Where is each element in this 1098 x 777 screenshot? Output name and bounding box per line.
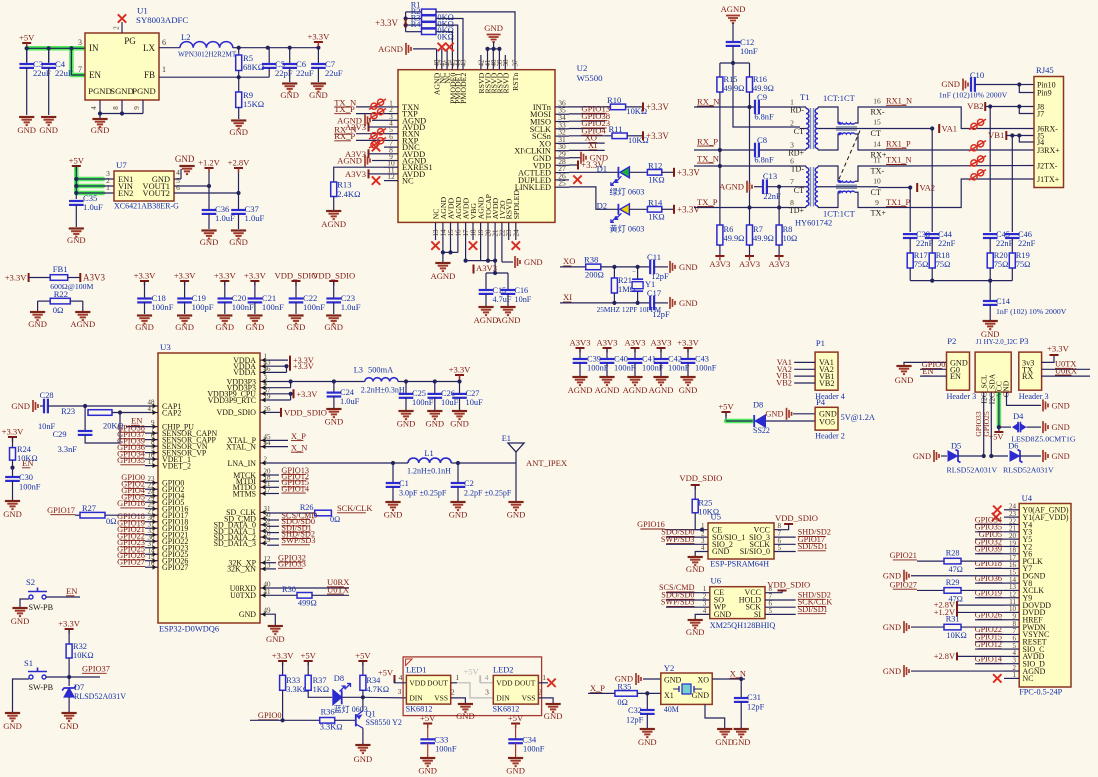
svg-text:C25: C25 [412,389,426,398]
svg-text:GND: GND [638,737,657,747]
ground below C39 [572,376,587,378]
svg-text:1CT:1CT: 1CT:1CT [823,210,855,219]
net label X_P [267,439,288,441]
svg-text:C29: C29 [53,430,67,439]
resistor R15 49.9ohm [717,77,723,92]
svg-text:ANT_IPEX: ANT_IPEX [526,458,568,468]
wire U5 GND pin4 to ground [695,552,708,557]
power flag VDD_SDIO above C23 [329,280,338,282]
svg-text:LED1: LED1 [406,665,426,674]
svg-text:D8: D8 [334,674,344,683]
svg-text:GND: GND [765,410,783,419]
svg-text:2: 2 [790,119,794,128]
wire VB1 down to C46 [1011,136,1013,233]
pin 18 MTDI of U3 [260,480,267,482]
pin 48 AGND of U2 top [436,55,438,70]
ground right of C11 [669,261,671,273]
wire VOUT2 +2.8V [174,192,239,194]
svg-text:RX1_P: RX1_P [886,140,911,149]
svg-text:1KΩ: 1KΩ [648,175,664,184]
wire U6 GND pin4 to ground [695,614,710,619]
svg-text:4.7uF: 4.7uF [493,295,512,304]
power flag +5V above C33 [423,723,432,725]
differential pair mark at J3 [969,141,986,152]
pin 14 GPIO25 of U3 [151,553,158,555]
svg-text:C31: C31 [747,693,761,702]
pin 41 U0TXD of U3 [260,594,267,596]
net flag VA2 [908,185,912,189]
capacitor C37 1.0uF [238,193,240,210]
zener diode D6 RLSD52A031V [991,455,1008,457]
net label U0RX wire [267,587,349,589]
capacitor C32 12pF [646,693,648,710]
svg-text:T1: T1 [800,92,810,102]
LED D2 yellow on LINKLED [617,204,619,215]
svg-text:SGND: SGND [110,86,133,96]
capacitor C21 100nF [254,281,256,299]
svg-text:1.0uF: 1.0uF [341,302,361,312]
ground below C22 [288,314,303,316]
ground below C6 [282,82,297,84]
svg-text:EN: EN [66,586,78,596]
svg-text:GND: GND [507,510,526,520]
ground below C37 [231,229,246,231]
svg-text:12pF: 12pF [626,716,644,725]
resistor R24 10KOhm EN pullup [12,437,14,448]
pin 29 GPIO5 of U3 [151,501,158,503]
svg-text:EN: EN [89,70,101,80]
differential pair mark RX [369,129,386,140]
svg-text:GND: GND [484,23,503,33]
svg-text:R30: R30 [282,585,296,594]
svg-text:6.8nF: 6.8nF [754,113,774,122]
svg-text:TX_N: TX_N [697,153,720,163]
svg-text:J1 HY-2.0_I2C: J1 HY-2.0_I2C [976,339,1018,346]
svg-text:TX+: TX+ [871,209,887,218]
svg-text:R17: R17 [914,251,928,260]
pin 18 VBG of U2 bottom [472,222,474,240]
svg-text:GND: GND [679,262,698,272]
svg-text:GPIO27: GPIO27 [117,558,145,567]
power flag +3.3V above C43 [684,347,693,349]
svg-text:10nF: 10nF [740,46,758,56]
svg-text:RX_P: RX_P [697,136,718,146]
choke core lines [836,126,857,128]
pin 32 SCSn of U2 [555,135,569,137]
capacitor C11 12pF [649,260,651,275]
resistor R26 0ohm [315,510,332,516]
svg-text:D7: D7 [74,683,84,692]
pin 31 SD_CLK of U3 [260,511,267,513]
antenna E1 ANT_IPEX [515,452,517,463]
capacitor C23 1.0uF [333,281,335,299]
svg-text:DOUT: DOUT [515,679,536,688]
wire R3 to PMODE1 pin 44 [436,25,458,55]
svg-text:+3.3V: +3.3V [677,167,700,177]
net label GPIO17 at U5 [774,543,796,545]
svg-text:100nF: 100nF [303,302,325,312]
wire S1 to R32 node and GPIO37 [46,676,100,678]
wire FB node [159,76,269,78]
pin 37 VDD3P9_CPU of U3 [260,393,267,395]
capacitor C42 100nF [660,348,662,359]
svg-text:7: 7 [78,65,82,74]
resistor R1 10KOhm [406,11,422,13]
ground below antenna E1 [515,463,517,501]
ground below C4 [41,116,56,118]
svg-text:+3.3V: +3.3V [677,338,700,348]
wire termination common bus [910,280,1012,282]
svg-text:A3V3: A3V3 [596,338,617,348]
svg-text:LNA_IN: LNA_IN [228,459,257,468]
pin 19 VDD3P9_RTC of U3 [260,399,267,401]
svg-text:U2: U2 [577,63,588,73]
svg-text:1: 1 [1013,671,1017,679]
wire C10 to Pin10 and Pin9 [1017,82,1021,86]
svg-text:C34: C34 [522,735,537,744]
capacitor C14 1nF 2000V [983,300,998,302]
bottom pins PGND SGND PGND of U1 [99,100,101,114]
wire CT2 from C12 node [733,63,800,127]
svg-text:GND: GND [239,610,256,619]
svg-text:VA2: VA2 [920,183,936,193]
svg-text:VDD_SDIO: VDD_SDIO [775,513,818,523]
wire PGND bus [100,113,143,115]
pin 26 VDD_SDIO of U3 [260,411,267,413]
pin 40 RSVD of U2 top [492,55,494,70]
svg-text:NC: NC [402,177,414,186]
svg-text:10uF: 10uF [441,398,459,407]
capacitor C33 100nF [427,724,429,740]
svg-text:RX_P: RX_P [334,131,355,141]
ground below U3 [268,625,283,627]
ground below Q1 [355,744,370,746]
svg-text:GPIO35: GPIO35 [117,456,145,465]
wire RX- route to J6 [878,107,1034,129]
svg-text:R27: R27 [82,504,96,513]
resistor R11 10KOhm pull-up on SCSn [605,135,612,137]
resistor R18 75ohm [929,253,935,268]
capacitor C44 22nF [925,233,940,235]
wire VDD3P9 CPU RTC to +3.3V [267,393,291,395]
svg-text:VDDA: VDDA [233,368,256,377]
svg-text:75Ω: 75Ω [994,260,1009,269]
capacitor C7 22uF [317,48,319,64]
svg-text:U5: U5 [711,512,722,522]
pin 27 GPIO17 of U3 [151,514,158,516]
pin 2 TXP of U2 [384,113,398,115]
svg-text:J1TX+: J1TX+ [1037,175,1060,184]
capacitor C25 100nF [405,382,407,394]
svg-text:49.9Ω: 49.9Ω [724,84,745,93]
svg-text:VOUT2: VOUT2 [143,189,170,198]
wire secondary to choke [818,107,838,123]
resistor R22 0ohm GND-AGND tie [38,300,51,302]
common mode choke winding lower [838,191,855,192]
net flag A3V3 at pin 21 [494,261,496,273]
connector RJ45 body [1034,77,1064,188]
wire LED1 VSS to ground [451,698,466,703]
svg-text:PMODE2: PMODE2 [459,73,468,104]
svg-text:RLSD52A031V: RLSD52A031V [1003,466,1054,475]
pin 8 AVDD of U2 [384,153,398,155]
ferrite bead FB1 600ohm@100M [29,277,51,279]
pin 23 Y1(AF_VDD) of U4 [1004,516,1019,518]
svg-text:GND: GND [679,298,698,308]
svg-text:GND: GND [229,237,248,247]
svg-text:100nF: 100nF [152,302,174,312]
regulator U7 XC6421AB38ER-G body [114,171,174,201]
svg-text:R12: R12 [648,160,662,170]
ground right of C17 [669,297,671,309]
svg-text:C40: C40 [614,355,628,364]
wire SD_CLK to R26 [267,512,315,514]
svg-text:1nF (102) 10% 2000V: 1nF (102) 10% 2000V [996,307,1067,316]
svg-text:3: 3 [790,141,794,150]
svg-text:WPN3012H2R2MT: WPN3012H2R2MT [178,51,237,59]
svg-text:GND: GND [544,711,563,721]
svg-text:GPIO12: GPIO12 [975,640,1002,649]
svg-text:U0TX: U0TX [327,584,350,594]
svg-text:100pF: 100pF [192,302,214,312]
wire S2 to EN label [46,596,80,598]
svg-text:GND: GND [135,322,154,332]
ground reference right of D4 [1042,421,1044,433]
pin 42 RSVD of U2 top [480,55,482,70]
resistor R27 0ohm [80,512,105,518]
capacitor C31 12pF [740,679,742,698]
pin 3 AGND of U2 [384,119,398,121]
pin 17 MTMS of U3 [260,493,267,495]
power flag +5V below VCC [998,427,1000,432]
svg-text:22nF: 22nF [996,239,1014,248]
resistor R19 75ohm [1009,253,1015,268]
power flag A3V3 above C41 [631,347,640,349]
svg-text:C10: C10 [970,70,984,80]
power flag +3.3V after R10 [642,102,644,111]
pin 12 NC of U2 [384,180,398,182]
svg-text:3.0pF ±0.25pF: 3.0pF ±0.25pF [399,489,447,498]
net label XO pin31 [569,142,605,144]
power flag +3.3V above C21 [250,280,259,282]
svg-text:GND: GND [715,737,734,747]
svg-text:10KΩ: 10KΩ [73,651,94,660]
svg-text:R38: R38 [584,255,598,265]
pin 47 CAP2 of U3 [151,412,158,414]
resistor R31 10KOhm [944,624,961,630]
pin 15 GPIO26 of U3 [151,560,158,562]
svg-text:X_N: X_N [730,670,746,679]
pin 14 Y8 of U4 [1004,582,1019,584]
pin 38 RSVD of U2 top [504,55,506,70]
pin 37 GPIO23 of U3 [151,547,158,549]
svg-text:SDI/SD1: SDI/SD1 [798,542,828,551]
ground below D7 [62,712,77,714]
wire INTn pin36 to R10 [569,106,610,108]
no-connect at LED2 DOUT [538,682,548,684]
pin 9 CHIP_PU of U3 [151,426,158,428]
wire +5V to U7 highlight [76,167,103,193]
ground below C24 [326,408,341,410]
ground below C41 [627,376,642,378]
svg-text:29: 29 [264,536,272,544]
svg-text:75Ω: 75Ω [936,260,951,269]
svg-text:Pin9: Pin9 [1037,88,1052,97]
ground below C19 [177,314,192,316]
svg-text:VDD_SDIO: VDD_SDIO [217,408,257,417]
svg-text:J7: J7 [1037,109,1044,118]
capacitor C8 6.8nF [754,143,756,158]
svg-text:2: 2 [264,456,268,464]
wire I2C_SCL column [983,392,985,456]
svg-text:TD+: TD+ [789,206,805,215]
svg-text:CAP2: CAP2 [162,408,181,417]
power flag +5V [22,42,31,44]
pin 24 GPIO4 of U3 [151,495,158,497]
wire CAP1 node to R23 [84,406,86,413]
capacitor C39 100nF [579,348,581,359]
svg-text:+3.3V: +3.3V [308,32,331,42]
svg-text:49.9Ω: 49.9Ω [753,234,774,243]
svg-text:1: 1 [542,673,546,682]
svg-text:R28: R28 [946,549,960,558]
capacitor C35 1.0uF [69,200,84,202]
diode D8 SS22 [753,415,755,427]
svg-text:VDD_SDIO: VDD_SDIO [679,473,722,483]
resistor R38 200ohm [586,264,601,270]
svg-text:R25: R25 [698,499,712,508]
pin 45 PMODE0 of U2 top [451,55,453,70]
svg-text:GPIO14: GPIO14 [281,484,310,493]
power flag +5V above C34 [511,723,520,725]
svg-text:GPIO16: GPIO16 [117,499,145,508]
net label SCS/CMD at U3 [267,519,279,521]
ground below C31 [734,728,749,730]
svg-text:AGND: AGND [649,385,674,395]
svg-text:11: 11 [873,156,880,165]
no-connect at U4 pin 1 NC [993,674,1001,682]
svg-text:AGND: AGND [623,385,648,395]
pin VB2 of P1 [794,382,815,384]
pin 18 Y6 of U4 [1004,553,1019,555]
svg-text:C1: C1 [399,479,409,488]
svg-text:SI/SIO_0: SI/SIO_0 [740,547,770,556]
resistor R34 4.7KOhm [362,661,364,675]
pin 43 PMODE2 of U2 top [462,55,464,70]
svg-text:0KΩ: 0KΩ [437,33,453,42]
svg-text:3: 3 [78,38,82,47]
ground below C1 [385,501,400,503]
wire S1 left to ground [13,679,30,712]
common mode choke winding upper [838,123,855,124]
capacitor C17 12pF [649,296,651,311]
zener diode D7 RLSD52A031V [68,677,70,686]
ground below C7 [311,82,326,84]
svg-text:+3.3V: +3.3V [1047,344,1070,354]
pin VA1 of P1 [794,361,815,363]
transformer core [810,167,812,207]
net label GPIO32 [267,562,276,564]
svg-text:+3.3V: +3.3V [214,271,237,281]
pin 2 LNA_IN of U3 [260,462,267,464]
svg-text:12: 12 [387,172,395,181]
capacitor C4 22uF [48,48,50,64]
capacitor C30 100nF [5,476,20,478]
power flag +3.3V above R33 [278,660,287,662]
pin 7 DNC of U2 [384,146,398,148]
red selection box around LED1 LED2 [403,657,541,716]
svg-text:1: 1 [106,183,110,192]
svg-text:22nF: 22nF [763,192,781,201]
pin 2 AGND of U4 [1004,670,1019,672]
wire center tap right [818,128,878,130]
svg-text:P4: P4 [816,397,826,407]
resistor R17 75ohm [907,253,913,268]
svg-text:CT: CT [871,188,881,197]
svg-text:VDD_SDIO: VDD_SDIO [284,407,327,417]
svg-text:EN: EN [22,458,34,468]
pin 33 SD_DATA_1 of U3 [260,530,267,532]
svg-text:22uF: 22uF [55,68,73,78]
svg-text:AGND: AGND [70,319,95,329]
svg-text:C13: C13 [763,171,777,181]
resistor R29 47ohm [944,588,961,594]
pin 5 SIO_C of U4 [1004,648,1019,650]
svg-text:TX1_N: TX1_N [886,156,912,165]
svg-text:3.3nF: 3.3nF [58,445,78,454]
svg-text:AGND: AGND [337,156,362,166]
wire P3 3v3 to +3.3V [1042,355,1054,362]
svg-text:IN: IN [89,43,99,53]
svg-text:3: 3 [485,688,489,697]
pin 8 PWDN of U4 [1004,626,1019,628]
svg-text:+3.3V: +3.3V [174,271,197,281]
svg-text:TX1_P: TX1_P [886,198,911,207]
svg-text:12pF: 12pF [747,703,765,712]
svg-text:68KΩ: 68KΩ [243,62,264,72]
inductor L3 2.2nH [365,378,398,382]
svg-text:VDD3P9_RTC: VDD3P9_RTC [208,396,256,405]
pin 28 VDD of U2 [555,164,569,166]
svg-text:U4: U4 [1022,493,1033,503]
svg-text:DIN: DIN [496,694,510,703]
svg-text:+5V: +5V [718,402,734,412]
pin 30 GPIO18 of U3 [151,521,158,523]
pin 46 VDDA of U3 [260,371,267,373]
svg-text:15: 15 [873,118,881,127]
svg-text:RX-: RX- [871,108,885,117]
svg-text:EN: EN [950,372,961,381]
pin 31 XO of U2 [555,142,569,144]
svg-text:C42: C42 [668,355,682,364]
ground below S2 [12,607,27,609]
svg-text:Y2: Y2 [664,663,675,673]
svg-text:RLSD52A031V: RLSD52A031V [74,692,126,701]
pin 17 PCLK of U4 [1004,560,1019,562]
svg-text:+5V: +5V [464,667,479,676]
svg-text:1: 1 [162,65,166,74]
pin 22 1V2O of U2 bottom [501,222,503,240]
svg-text:XO: XO [563,256,575,266]
wire CT10 to VA2 [878,187,910,189]
pin 45 XTAL_P of U3 [260,439,267,441]
svg-text:C44: C44 [938,230,953,239]
svg-text:43: 43 [460,59,468,67]
svg-text:SK6812: SK6812 [493,704,520,713]
svg-text:R20: R20 [994,251,1008,260]
svg-text:200Ω: 200Ω [585,271,604,280]
pin VB1 of P1 [794,375,815,377]
